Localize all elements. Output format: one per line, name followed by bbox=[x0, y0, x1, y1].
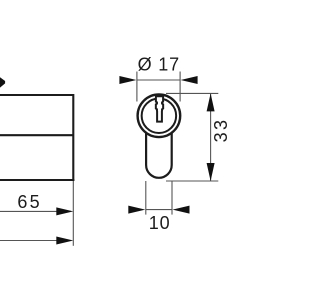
extension line 10 right bbox=[171, 181, 173, 215]
arrow lower right bbox=[56, 237, 73, 245]
stem (lower body of front view) bbox=[146, 131, 172, 178]
dimension line 10 bbox=[146, 209, 172, 211]
svg-text:Ø 17: Ø 17 bbox=[138, 54, 180, 74]
svg-text:65: 65 bbox=[17, 192, 41, 212]
side view rectangle (cylinder body, cropped at left) bbox=[0, 94, 74, 181]
extension line below side view right edge bbox=[72, 181, 74, 246]
Ø17 extension line left bbox=[136, 72, 138, 102]
key profile in cylinder face bbox=[156, 96, 163, 121]
divider line bbox=[0, 134, 73, 136]
arrow 10 right (outside) bbox=[173, 206, 190, 214]
Ø17 arrow right (outside, pointing left) bbox=[181, 76, 198, 84]
bottom edge bbox=[0, 179, 74, 181]
dimension line 65 bbox=[0, 210, 71, 212]
arrow 33 up bbox=[207, 93, 215, 111]
extension line 10 left bbox=[145, 181, 147, 215]
cropped arrowhead at left edge bbox=[0, 77, 5, 87]
svg-text:33: 33 bbox=[211, 118, 231, 143]
extension line 33 top bbox=[166, 92, 218, 94]
arrow 10 left (outside) bbox=[128, 206, 145, 214]
arrow 33 down bbox=[207, 163, 215, 181]
svg-text:10: 10 bbox=[149, 213, 171, 233]
dimension line 33 bbox=[210, 93, 212, 181]
Ø17 dimension line bbox=[137, 79, 180, 81]
inner circle of front view bbox=[142, 99, 177, 134]
Ø17 extension line right bbox=[179, 72, 181, 102]
arrow 65 right bbox=[56, 207, 73, 215]
outer circle of front view bbox=[138, 94, 181, 137]
Ø17 arrow left (outside, pointing right) bbox=[119, 76, 136, 84]
dimension line 2 (lower, cropped) bbox=[0, 240, 71, 242]
top edge bbox=[0, 94, 73, 96]
extension line 33 bottom bbox=[166, 180, 218, 182]
right edge bbox=[72, 94, 74, 181]
